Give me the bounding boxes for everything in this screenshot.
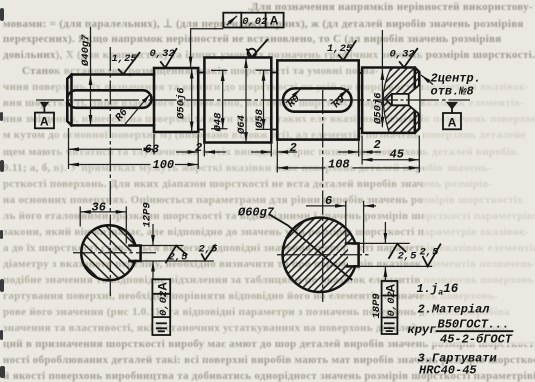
symmetry tolerance frame section 2 <box>382 281 398 334</box>
roughness 0,32 on end section <box>390 49 418 68</box>
svg-text:Ø50j6: Ø50j6 <box>176 87 188 120</box>
svg-text:A: A <box>448 115 457 129</box>
section 2 keyway slot <box>346 243 359 266</box>
section 2 horizontal centerline <box>277 254 370 256</box>
center hole local section hatch <box>383 68 419 133</box>
svg-text:1,25: 1,25 <box>112 53 138 65</box>
material fraction <box>437 318 513 347</box>
cross section 2 hatched circle <box>283 218 357 292</box>
roughness 1,25 on section 1 <box>112 53 140 75</box>
dimension 100 <box>69 158 199 172</box>
svg-text:2,5: 2,5 <box>398 251 418 263</box>
keyway radius R6 leader <box>113 94 150 125</box>
dimension o64 <box>236 58 248 143</box>
shaft section 4 with keyway <box>277 60 358 139</box>
svg-text:0,02: 0,02 <box>242 16 268 28</box>
scan edge marks <box>0 8 5 378</box>
dimension o48 <box>211 70 228 132</box>
dimension 2 right groove <box>338 138 381 152</box>
svg-text:2центр.: 2центр. <box>431 72 481 86</box>
extension lines bottom <box>69 128 420 173</box>
shaft section 2 (o50j6 left) <box>154 68 198 132</box>
dimension 36 <box>80 200 126 243</box>
dimension 12P9 <box>142 202 154 279</box>
svg-text:63: 63 <box>145 142 159 156</box>
svg-text:108: 108 <box>328 157 350 171</box>
cross section 1 hatched circle <box>81 225 136 280</box>
section 1 keyway slot <box>130 246 141 262</box>
svg-text:A: A <box>155 282 169 291</box>
roughness 2,5 section 2 b <box>420 244 441 266</box>
svg-text:12P9: 12P9 <box>142 202 154 227</box>
roughness 2,5 section 1 b <box>199 244 219 261</box>
svg-text:45: 45 <box>390 147 405 161</box>
svg-text:круг: круг <box>408 323 437 337</box>
shaft end section 5 (o50j6 right) <box>362 68 419 133</box>
section 1 horizontal centerline <box>73 252 156 254</box>
svg-text:2: 2 <box>195 141 202 155</box>
relief groove 2mm middle <box>271 73 277 130</box>
relief groove 2mm right <box>359 73 362 129</box>
symmetry tolerance frame section 1 <box>152 279 170 335</box>
center holes note 2centr otv N8 <box>421 72 481 99</box>
roughness 0,32 on section 2 <box>150 48 177 68</box>
svg-text:Ø60g7: Ø60g7 <box>237 206 275 220</box>
svg-text:HRC40-45: HRC40-45 <box>419 364 477 378</box>
svg-text:A: A <box>383 284 397 293</box>
axis through center hole <box>384 99 428 101</box>
dimension 2 middle groove <box>251 141 297 155</box>
svg-text:Ø40g7: Ø40g7 <box>80 34 92 67</box>
roughness circle symbol on flange <box>247 40 267 58</box>
roughness 2,5 section 2 a <box>389 244 417 263</box>
svg-text:45-2-бГОСТ: 45-2-бГОСТ <box>440 331 513 346</box>
svg-text:36: 36 <box>92 200 106 214</box>
svg-text:A: A <box>270 14 279 28</box>
dimension o50j6 left <box>176 68 192 132</box>
dimension 108 <box>277 157 419 171</box>
dimension 63 <box>69 142 159 156</box>
svg-text:1,25: 1,25 <box>327 43 353 55</box>
keyway slot R6 in section 1 <box>67 90 151 108</box>
shaft section 1 (o40g7) <box>67 75 154 126</box>
svg-text:2: 2 <box>290 141 297 155</box>
dimension 18P9 <box>371 222 386 319</box>
diameter o60g7 label with leader <box>237 206 352 280</box>
center hole cavity <box>386 85 420 114</box>
local section break line <box>383 68 391 133</box>
svg-text:Ø50j6: Ø50j6 <box>373 92 385 125</box>
svg-text:0,02: 0,02 <box>386 291 398 317</box>
shaft flange o64 <box>204 58 271 143</box>
svg-text:Ø48: Ø48 <box>213 112 225 133</box>
shaft axis centerline <box>36 99 470 101</box>
svg-text:2: 2 <box>374 138 381 152</box>
svg-text:A: A <box>40 115 49 129</box>
datum A left <box>35 102 54 129</box>
dimension o50j6 right <box>373 30 385 127</box>
svg-text:В50ГОСТ...: В50ГОСТ... <box>438 318 510 332</box>
tolerance frame leader arrow <box>191 29 224 67</box>
svg-text:100: 100 <box>153 158 175 172</box>
svg-text:Ø58: Ø58 <box>254 108 266 129</box>
keyway radius R9 leader 1 <box>285 89 302 111</box>
datum A right <box>443 102 461 129</box>
svg-text:отв.№8: отв.№8 <box>431 85 474 99</box>
roughness 1,25 on keyway section <box>327 41 356 60</box>
svg-text:2,5: 2,5 <box>169 252 189 264</box>
roughness 2,5 section 1 a <box>166 246 188 264</box>
keyway slot R9 <box>283 88 352 111</box>
section 2 slot extension lines <box>359 243 433 266</box>
dimension 6 <box>306 194 376 253</box>
section 1 slot extension lines <box>141 246 214 262</box>
svg-text:R9: R9 <box>331 93 348 110</box>
dimension 2 left groove <box>176 141 226 155</box>
svg-text:2.Матеріал: 2.Матеріал <box>418 303 491 317</box>
dimension o58 <box>254 70 273 129</box>
dimension 45 <box>362 147 419 161</box>
runout tolerance frame 0,02 A <box>223 13 283 28</box>
svg-text:0,32: 0,32 <box>390 49 416 61</box>
svg-text:0,02: 0,02 <box>158 290 170 316</box>
relief groove 2mm left <box>199 73 204 130</box>
svg-text:R9: R9 <box>285 93 302 110</box>
svg-text:1.jа16: 1.jа16 <box>417 282 459 298</box>
dimension o40g7 <box>80 27 92 125</box>
svg-text:Ø64: Ø64 <box>236 115 248 135</box>
cutting plane centerline right section <box>322 90 324 302</box>
keyway radius R9 leader 2 <box>331 89 349 111</box>
cutting plane centerline left section <box>109 47 111 296</box>
svg-text:6: 6 <box>325 194 332 208</box>
